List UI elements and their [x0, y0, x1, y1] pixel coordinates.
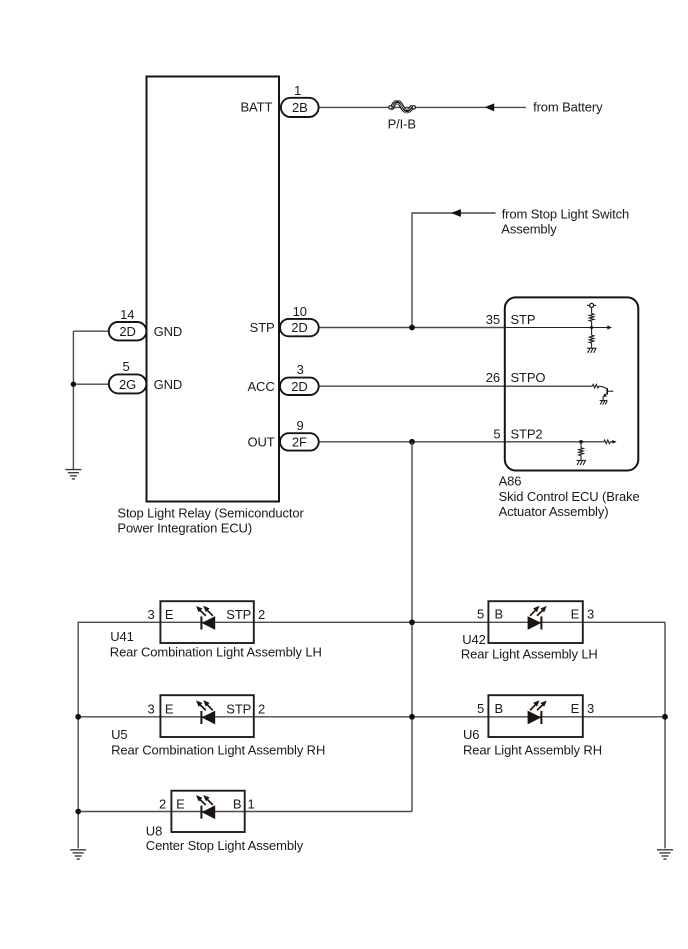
svg-text:from Battery: from Battery [533, 100, 603, 115]
relay name label [117, 506, 304, 536]
svg-text:P/I-B: P/I-B [388, 117, 416, 132]
svg-text:9: 9 [296, 418, 303, 433]
junction left bus row 2 [75, 714, 81, 720]
svg-text:OUT: OUT [248, 435, 275, 450]
svg-text:10: 10 [293, 304, 307, 319]
relay U (Stop Light Relay, Semiconductor Power Integration ECU) [147, 77, 280, 502]
svg-text:E: E [165, 702, 174, 717]
svg-text:35: 35 [486, 312, 500, 327]
squiggle terminal circles [389, 106, 416, 109]
junction OUT net row 1 [409, 619, 415, 625]
ground bottom-right [657, 850, 673, 859]
junction node OUT [409, 439, 415, 445]
svg-text:ACC: ACC [248, 379, 275, 394]
LED D (U8) [197, 796, 215, 819]
svg-text:U5: U5 [111, 727, 127, 742]
svg-text:3: 3 [587, 701, 594, 716]
svg-text:2F: 2F [292, 435, 307, 450]
wire ACC to skid ECU pin 26 [319, 385, 505, 387]
svg-text:A86: A86 [499, 474, 522, 489]
svg-text:STP: STP [226, 607, 251, 622]
svg-text:5: 5 [477, 701, 484, 716]
connector terminal 2G (pin 5) [109, 374, 147, 393]
connector terminal 2D (pin 3) [280, 378, 319, 395]
lamp U8 box [171, 791, 244, 832]
svg-text:Assembly: Assembly [501, 222, 557, 237]
svg-text:STP2: STP2 [511, 426, 543, 441]
svg-text:3: 3 [147, 702, 154, 717]
wire lamp row 2 [78, 716, 665, 718]
svg-text:B: B [233, 797, 242, 812]
svg-text:B: B [495, 701, 504, 716]
svg-text:GND: GND [154, 324, 183, 339]
svg-text:Power Integration ECU): Power Integration ECU) [117, 521, 252, 536]
svg-text:2: 2 [258, 607, 265, 622]
wire BATT to battery [319, 106, 526, 108]
svg-text:Actuator Assembly): Actuator Assembly) [499, 504, 609, 519]
LED D (U42) [528, 606, 546, 629]
svg-text:2: 2 [159, 797, 166, 812]
svg-text:STPO: STPO [511, 370, 546, 385]
wire STP to skid ECU pin 35 [319, 327, 505, 329]
wire to internal ground [591, 343, 593, 348]
wire STP internal (A86) with arrowhead [505, 326, 612, 330]
svg-text:Rear Light Assembly LH: Rear Light Assembly LH [461, 647, 598, 662]
lamp U6 box [488, 695, 582, 737]
svg-text:5: 5 [477, 607, 484, 622]
ground internal (A86 STP2) [577, 460, 586, 465]
wire STP2 internal (A86) [505, 441, 604, 443]
wire OUT to skid ECU pin 5 [319, 441, 505, 443]
lamp U42 box [488, 601, 582, 643]
svg-text:E: E [571, 701, 580, 716]
svg-text:STP: STP [511, 312, 536, 327]
svg-text:14: 14 [120, 307, 134, 322]
svg-text:Rear Combination Light Assembl: Rear Combination Light Assembly RH [111, 742, 325, 757]
junction right bus row 2 [662, 714, 668, 720]
svg-text:26: 26 [486, 370, 500, 385]
svg-text:BATT: BATT [241, 99, 273, 114]
svg-text:Skid Control ECU (Brake: Skid Control ECU (Brake [499, 489, 640, 504]
annotation from Stop Light Switch Assembly [501, 207, 629, 237]
svg-text:5: 5 [122, 359, 129, 374]
arrowhead toward battery [484, 103, 494, 111]
svg-text:U42: U42 [462, 632, 486, 647]
resistor pull-up (A86 STP) [589, 314, 594, 322]
noise filter squiggle [392, 101, 411, 113]
svg-text:3: 3 [587, 607, 594, 622]
ground bottom-left [70, 850, 86, 859]
svg-text:B: B [495, 607, 504, 622]
ground symbol left-top [65, 470, 81, 479]
connector terminal 2D (pin 10) [280, 319, 319, 336]
lamp U5 box [160, 695, 253, 737]
svg-text:STP: STP [250, 320, 275, 335]
svg-text:E: E [571, 607, 580, 622]
svg-text:2G: 2G [119, 377, 136, 392]
resistor series with arrowhead (A86 STP2) [604, 440, 617, 444]
svg-text:Rear Combination Light Assembl: Rear Combination Light Assembly LH [110, 645, 322, 660]
LED D (U5) [197, 701, 215, 724]
ground internal (A86 STPO) [600, 401, 608, 405]
svg-text:Stop Light Relay (Semiconducto: Stop Light Relay (Semiconductor [117, 506, 304, 521]
ground internal (A86 STP) [587, 348, 596, 353]
ECU A86 (Skid Control ECU) box [505, 297, 639, 470]
wire from stop light switch to node STP [412, 213, 496, 328]
wire OUT vertical to lamp rows [411, 442, 413, 812]
junction STP2 internal [579, 440, 583, 444]
junction node STP [409, 325, 415, 331]
wire GND pin 5 to ground bus [73, 383, 108, 385]
svg-text:E: E [176, 797, 185, 812]
connector terminal 2D (pin 14) [109, 322, 147, 340]
transistor Q (A86 STPO) [599, 386, 613, 400]
resistor pull-down (A86 STP2) [579, 442, 584, 461]
svg-text:1: 1 [247, 797, 254, 812]
connector terminal 2B [281, 98, 319, 117]
svg-text:U6: U6 [463, 727, 479, 742]
connector terminal 2F (pin 9) [280, 433, 319, 450]
junction STP divider [590, 326, 593, 329]
svg-text:3: 3 [297, 362, 304, 377]
svg-text:Center Stop Light Assembly: Center Stop Light Assembly [146, 838, 304, 853]
wire right ground bus [664, 622, 666, 848]
LED D (U6) [528, 701, 546, 724]
supply terminal circle (A86 STP pull-up) [587, 303, 596, 313]
svg-text:Rear Light Assembly RH: Rear Light Assembly RH [463, 743, 602, 758]
svg-text:3: 3 [147, 607, 154, 622]
junction OUT net row 2 [409, 714, 415, 720]
resistor base (A86 STPO) [592, 384, 599, 388]
junction GND bus [71, 382, 76, 387]
svg-text:2: 2 [258, 702, 265, 717]
svg-text:from Stop Light Switch: from Stop Light Switch [502, 207, 629, 222]
LED D (U41) [197, 606, 215, 629]
svg-text:U41: U41 [110, 629, 134, 644]
svg-text:2B: 2B [292, 100, 308, 115]
svg-text:5: 5 [493, 426, 500, 441]
svg-text:E: E [165, 607, 174, 622]
wire ground bus vertical [72, 331, 74, 469]
svg-text:1: 1 [294, 83, 301, 98]
ECU A86 name label [499, 474, 640, 519]
svg-text:U8: U8 [146, 824, 162, 839]
svg-text:2D: 2D [291, 320, 307, 335]
lamp U41 box [160, 601, 253, 643]
svg-text:2D: 2D [291, 379, 307, 394]
wire pull-up to pull-down [591, 321, 593, 335]
wire lamp row 1 and left ground bus [78, 622, 665, 848]
wire lamp row 3 [78, 811, 412, 813]
arrowhead toward stop light switch [451, 209, 461, 217]
svg-text:GND: GND [154, 377, 183, 392]
wire STPO internal (A86) [505, 385, 593, 387]
junction left bus row 3 [75, 809, 81, 815]
resistor pull-down (A86 STP) [589, 335, 594, 343]
wire GND pin 14 to ground bus [73, 330, 108, 332]
svg-text:2D: 2D [119, 324, 135, 339]
svg-text:STP: STP [226, 702, 251, 717]
